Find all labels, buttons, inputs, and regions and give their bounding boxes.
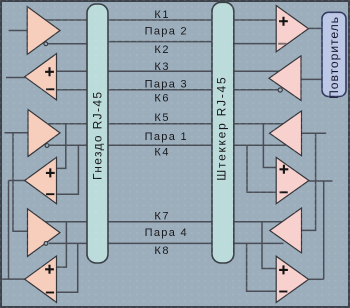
- wire R3 input stub: [302, 132, 327, 134]
- driver R5: [270, 208, 302, 253]
- wire K4: [49, 144, 286, 146]
- wire T1 input: [9, 30, 28, 32]
- wire R4 output stub: [309, 180, 333, 182]
- wire K5: [44, 123, 286, 125]
- wire K2 left segment: [48, 43, 95, 45]
- bubble on T5 inverted output: [44, 242, 48, 246]
- minus label R4: [280, 191, 288, 193]
- wire R4 plus tap from K5: [263, 124, 276, 168]
- plus label R6: [279, 265, 288, 274]
- wire T6 minus tap from K8: [57, 243, 78, 292]
- wire R6 plus tap from K7: [262, 222, 277, 269]
- wire T6 plus tap from K7: [57, 222, 67, 267]
- receiver R6: [276, 256, 308, 302]
- plus label T6: [45, 265, 54, 274]
- minus label T2: [46, 88, 54, 90]
- bubble on R2 inverted output: [278, 88, 282, 92]
- wire R2 input from repeater: [301, 78, 322, 80]
- receiver T2: [25, 54, 57, 100]
- plus label R1: [279, 17, 288, 26]
- plus label T2: [45, 67, 54, 76]
- wire T4 minus tap from K4: [57, 145, 79, 194]
- connector Gnezdo RJ-45 (jack): [87, 4, 108, 263]
- driver T5: [28, 209, 61, 257]
- wire R6 minus tap from K8: [247, 243, 277, 291]
- repeater box Povtoritel: [322, 12, 346, 96]
- wire T6 output: [2, 278, 25, 280]
- wire T4 output stub: [9, 180, 26, 182]
- minus label R6: [279, 291, 287, 293]
- wire vertical R3-R5 input bus: [302, 133, 316, 230]
- wire T2 output stub: [6, 77, 25, 79]
- bubble on T3 inverted output: [45, 144, 49, 148]
- driver R3: [270, 111, 302, 156]
- connector Shtekker RJ-45 (plug): [212, 2, 234, 263]
- wire K2 middle segment: [100, 41, 219, 43]
- receiver T6: [25, 256, 57, 302]
- bubble on T1 inverted output: [44, 42, 48, 46]
- wire vertical R4-R6 output bus: [323, 181, 325, 279]
- wire R4 minus tap from K4: [247, 145, 277, 192]
- wire K3: [57, 70, 281, 72]
- wire R6 output: [309, 278, 324, 280]
- minus label R1: [278, 43, 286, 45]
- driver T3: [28, 110, 60, 157]
- minus label T4: [46, 193, 54, 195]
- wire vertical T4-T6 output bus: [8, 181, 10, 280]
- plus label T4: [46, 168, 55, 177]
- wire vertical T3-T5 input bus: [13, 133, 28, 231]
- wire K2 right segment: [227, 43, 277, 45]
- driver R2: [269, 56, 301, 101]
- wire T4 plus tap from K5: [57, 124, 66, 169]
- receiver R4: [276, 157, 309, 203]
- wire K8: [49, 242, 284, 244]
- receiver T4: [25, 157, 57, 203]
- wire T3 input stub: [5, 132, 29, 134]
- wire K1: [44, 19, 277, 21]
- plus label R4: [280, 165, 289, 174]
- wire K6: [57, 89, 279, 91]
- driver T1: [27, 7, 60, 55]
- minus label T6: [46, 292, 54, 294]
- wire R1 output to repeater: [308, 27, 322, 29]
- wire K7: [44, 221, 285, 223]
- receiver R1: [276, 6, 308, 52]
